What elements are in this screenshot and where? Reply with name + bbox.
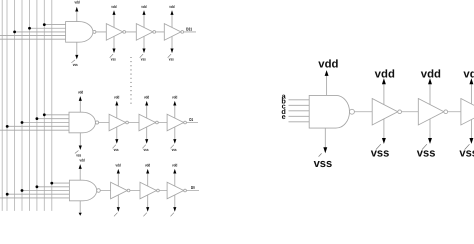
- wire row1 inv1 vss label leader: [110, 54, 113, 58]
- svg-text:vss: vss: [73, 62, 78, 67]
- svg-text:vdd: vdd: [172, 95, 177, 100]
- inverter row3 stage 2: [140, 182, 157, 199]
- wire U1 vdd stem: [326, 76, 328, 96]
- svg-text:vss: vss: [371, 148, 390, 160]
- svg-text:vdd: vdd: [169, 5, 174, 10]
- wire row1 gate vdd stem: [76, 11, 78, 21]
- label row3 inv2 vdd: [145, 163, 150, 168]
- wire bus line 7: [43, 0, 45, 211]
- power arrow row3 inv3 vss: [173, 207, 176, 212]
- inverter row3 stage 2 bubble: [157, 189, 160, 192]
- svg-text:vdd: vdd: [78, 90, 83, 95]
- wire row1 inv1 vdd stem: [113, 15, 115, 28]
- svg-text:vdd: vdd: [145, 163, 150, 168]
- wire row1 input 3: [15, 31, 66, 33]
- inverter row1 stage 3: [164, 24, 181, 41]
- wire row2 gate vss label leader: [75, 151, 79, 154]
- svg-text:vss: vss: [111, 57, 116, 62]
- label row2 inv1 vdd: [114, 95, 119, 100]
- wire row3 inv1 vss label leader: [114, 213, 117, 217]
- wire row2 gate vss stem: [79, 133, 81, 146]
- svg-text:vdd: vdd: [144, 95, 149, 100]
- power arrow row2 gate vss: [79, 146, 82, 151]
- wire big gate input b: [289, 104, 310, 106]
- wire row2 inv1 vss stem: [116, 127, 118, 139]
- svg-text:vdd: vdd: [114, 95, 119, 100]
- wire bus line 6: [36, 0, 38, 211]
- wire row2 input 4: [7, 125, 69, 127]
- wire row2 output chain: [99, 122, 198, 124]
- wire row2 inv3 vss label leader: [171, 145, 174, 149]
- wire big gate input e: [289, 121, 310, 123]
- inverter row1 stage 2 bubble: [153, 31, 156, 34]
- wire row2 inv2 vss stem: [146, 127, 148, 139]
- node row3 junction dot input 1: [50, 182, 53, 185]
- svg-text:vdd: vdd: [111, 5, 116, 10]
- wire row3 input 3: [22, 190, 69, 192]
- power arrow row2 inv2 vss: [145, 139, 148, 144]
- wire U3 vss label leader: [422, 144, 427, 149]
- node row3 junction dot input 4: [6, 193, 9, 196]
- wire row1 output chain: [96, 31, 196, 33]
- inverter U4 (big stage 3): [461, 99, 474, 125]
- power arrow U3 vss: [428, 138, 432, 144]
- label row1 inv3 vss: [169, 57, 174, 62]
- power arrow U2 vss: [382, 138, 386, 144]
- label row1 inv1 vss: [111, 57, 116, 62]
- wire bus line 2: [6, 0, 8, 211]
- wire U1 vss stem: [324, 128, 326, 148]
- svg-text:vdd: vdd: [318, 58, 338, 70]
- label row3 inv1 vdd: [116, 163, 121, 168]
- wire U2 vdd stem: [383, 84, 385, 105]
- svg-text:vss: vss: [314, 158, 333, 170]
- inverter row2 stage 3 bubble: [184, 121, 187, 124]
- label row2 inv2 vss: [144, 147, 149, 152]
- power arrow row1 gate vss: [75, 55, 78, 60]
- label row1 inv3 vdd: [169, 5, 174, 10]
- wire U4 vss stem: [470, 120, 472, 139]
- nand gate row1: [66, 22, 93, 43]
- power arrow row2 inv3 vss: [173, 139, 176, 144]
- label output D31: [186, 27, 192, 32]
- power arrow row1 inv1 vdd: [112, 10, 115, 15]
- svg-text:vdd: vdd: [375, 68, 395, 80]
- node row2 junction dot input 1: [43, 113, 46, 116]
- inverter U3 bubble: [444, 110, 448, 114]
- svg-text:vss: vss: [114, 147, 119, 152]
- label output D0: [191, 185, 195, 190]
- wire row2 input 2: [37, 118, 69, 120]
- inverter row2 stage 2: [139, 114, 156, 131]
- inverter row1 stage 2: [136, 24, 153, 41]
- power arrow U3 vdd: [428, 78, 432, 84]
- svg-text:vdd: vdd: [141, 5, 146, 10]
- svg-text:vss: vss: [459, 148, 474, 160]
- ellipsis dotted line between row1 and row2: [130, 57, 131, 58]
- inverter row3 stage 1 bubble: [127, 189, 130, 192]
- wire U1 vss label leader: [319, 153, 322, 156]
- node row1 junction dot input 3: [13, 31, 16, 34]
- wire row2 inv1 vss label leader: [113, 145, 116, 149]
- label row3 gate vdd: [80, 158, 85, 163]
- label row2 gate vss: [76, 153, 81, 158]
- svg-text:vdd: vdd: [80, 158, 85, 163]
- power arrow row2 inv2 vdd: [145, 101, 148, 106]
- power arrow row3 inv2 vdd: [146, 169, 149, 174]
- inverter row2 stage 1: [109, 114, 126, 131]
- svg-text:vdd: vdd: [172, 163, 177, 168]
- power arrow row3 inv1 vdd: [117, 169, 120, 174]
- wire row3 inv2 vss label leader: [143, 213, 146, 217]
- wire row2 inv1 vdd stem: [116, 105, 118, 118]
- svg-text:vss: vss: [169, 57, 174, 62]
- wire row2 inv3 vdd stem: [174, 105, 176, 118]
- wire row2 inv2 vdd stem: [146, 105, 148, 118]
- power arrow row1 inv3 vss: [170, 49, 173, 54]
- wire row3 inv3 vss label leader: [171, 213, 174, 217]
- wire row1 inv2 vss label leader: [140, 54, 143, 58]
- wire row3 inv1 vdd stem: [117, 173, 119, 186]
- inverter row3 stage 3: [167, 182, 184, 199]
- power arrow U4 vdd: [469, 78, 473, 84]
- wire row1 inv3 vss stem: [171, 36, 173, 48]
- wire row2 input 1: [44, 114, 69, 116]
- power arrow row3 inv2 vss: [146, 207, 149, 212]
- wire row1 input 1: [44, 24, 65, 26]
- wire row1 inv2 vss stem: [143, 36, 145, 48]
- inverter row1 stage 3 bubble: [181, 31, 184, 34]
- wire row3 gate vdd stem: [79, 169, 81, 180]
- nand gate row2 output bubble: [95, 121, 98, 124]
- power arrow U2 vdd: [382, 78, 386, 84]
- label row2 gate vdd: [78, 90, 83, 95]
- wire big gate input d: [289, 115, 310, 117]
- wire row2 inv2 vss label leader: [142, 145, 145, 149]
- wire bus line 8: [51, 0, 53, 211]
- svg-text:e: e: [282, 112, 286, 121]
- power arrow row2 inv1 vdd: [115, 101, 118, 106]
- label row1 gate vdd: [74, 0, 79, 5]
- wire row3 input 1: [52, 182, 70, 184]
- wire U2 vss label leader: [376, 144, 381, 149]
- wire bus line 3: [14, 0, 16, 211]
- power arrow U4 vss: [469, 138, 473, 144]
- svg-text:vss: vss: [76, 153, 81, 158]
- wire bus line 4: [21, 0, 23, 211]
- power arrow row3 gate vss: [79, 213, 82, 216]
- wire row1 input 5: [0, 38, 66, 40]
- wire row2 input 5: [0, 129, 69, 131]
- power arrow row1 inv1 vss: [112, 49, 115, 54]
- power arrow row1 inv2 vdd: [142, 10, 145, 15]
- wire row3 inv3 vss stem: [174, 195, 176, 207]
- power arrow U1 vdd: [325, 70, 329, 76]
- label row1 gate vss: [73, 62, 78, 67]
- wire U4 vss label leader: [465, 144, 470, 149]
- svg-text:vdd: vdd: [463, 68, 474, 80]
- node row1 junction dot input 2: [28, 27, 31, 30]
- node row3 junction dot input 3: [21, 189, 24, 192]
- inverter U3 (big stage 2): [418, 99, 444, 125]
- label row2 inv3 vss: [172, 147, 177, 152]
- wire U2 vss stem: [383, 119, 385, 138]
- wire U4 vdd stem: [470, 84, 472, 104]
- inverter row2 stage 3: [167, 114, 184, 131]
- inverter U2 (big stage 1): [372, 99, 398, 125]
- wire row1 inv3 vss label leader: [168, 54, 171, 58]
- wire row2 input 3: [22, 122, 69, 124]
- wire row3 inv1 vss stem: [117, 195, 119, 207]
- svg-text:D0: D0: [191, 185, 195, 190]
- nand gate row3: [69, 180, 96, 201]
- wire row3 inv3 vdd stem: [174, 173, 176, 186]
- wire bus line 5: [29, 0, 31, 211]
- power arrow row3 gate vdd: [79, 164, 82, 169]
- wire row3 inv2 vdd stem: [147, 173, 149, 186]
- wire row2 inv3 vss stem: [174, 127, 176, 139]
- inverter U2 bubble: [398, 110, 402, 114]
- wire row1 inv1 vss stem: [113, 36, 115, 48]
- inverter row2 stage 2 bubble: [156, 121, 159, 124]
- wire row3 output chain: [100, 190, 199, 192]
- wire row1 inv3 vdd stem: [171, 15, 173, 28]
- svg-text:D31: D31: [186, 27, 192, 32]
- wire big gate input a: [289, 99, 310, 101]
- inverter row1 stage 1: [106, 24, 123, 41]
- power arrow row2 gate vdd: [79, 96, 82, 101]
- wire row2 gate vdd stem: [79, 101, 81, 112]
- wire row1 gate vss label leader: [71, 60, 75, 63]
- power arrow row3 inv1 vss: [117, 207, 120, 212]
- nand gate U1 output bubble: [350, 109, 355, 114]
- svg-text:vdd: vdd: [74, 0, 79, 5]
- node row2 junction dot input 3: [21, 121, 24, 124]
- label row2 inv2 vdd: [144, 95, 149, 100]
- label row3 inv3 vdd: [172, 163, 177, 168]
- label row1 inv2 vdd: [141, 5, 146, 10]
- node row2 junction dot input 2: [36, 117, 39, 120]
- inverter row1 stage 1 bubble: [123, 31, 126, 34]
- wire row1 input 4: [0, 35, 66, 37]
- wire U3 vdd stem: [429, 84, 431, 105]
- power arrow row1 inv3 vdd: [170, 10, 173, 15]
- node row2 junction dot input 4: [6, 125, 9, 128]
- nand gate U1 (big): [309, 95, 349, 128]
- nand gate row3 output bubble: [97, 189, 101, 193]
- power arrow row1 inv2 vss: [142, 49, 145, 54]
- label row1 inv1 vdd: [111, 5, 116, 10]
- wire row3 gate vss stem: [79, 201, 81, 214]
- svg-text:D1: D1: [189, 117, 193, 122]
- power arrow row2 inv3 vdd: [173, 101, 176, 106]
- svg-text:vss: vss: [417, 148, 436, 160]
- nand gate row1 output bubble: [93, 30, 96, 33]
- inverter row3 stage 3 bubble: [184, 189, 187, 192]
- inverter row2 stage 1 bubble: [126, 121, 129, 124]
- wire bus line 1: [1, 0, 3, 211]
- wire row1 gate vss stem: [76, 42, 78, 55]
- wire U1 output chain: [354, 111, 474, 113]
- nand gate row2: [69, 112, 95, 133]
- power arrow U1 vss: [323, 147, 327, 153]
- label row2 inv3 vdd: [172, 95, 177, 100]
- svg-text:vdd: vdd: [116, 163, 121, 168]
- wire row3 input 5: [0, 197, 69, 199]
- inverter row3 stage 1: [111, 182, 128, 199]
- power arrow row3 inv3 vdd: [173, 169, 176, 174]
- svg-text:vss: vss: [141, 57, 146, 62]
- wire U3 vss stem: [429, 119, 431, 138]
- wire big gate input c: [289, 110, 310, 112]
- wire row1 inv2 vdd stem: [143, 15, 145, 28]
- power arrow row1 gate vdd: [75, 7, 78, 12]
- svg-text:vss: vss: [172, 147, 177, 152]
- node row1 junction dot input 1: [43, 23, 46, 26]
- label row2 inv1 vss: [114, 147, 119, 152]
- wire row3 input 4: [7, 193, 69, 195]
- svg-text:vdd: vdd: [421, 68, 441, 80]
- label row1 inv2 vss: [141, 57, 146, 62]
- wire row3 input 2: [37, 186, 70, 188]
- node row3 junction dot input 2: [36, 185, 39, 188]
- power arrow row2 inv1 vss: [115, 139, 118, 144]
- label output D1: [189, 117, 193, 122]
- svg-text:vss: vss: [144, 147, 149, 152]
- wire row3 inv2 vss stem: [147, 195, 149, 207]
- wire row1 input 2: [30, 27, 66, 29]
